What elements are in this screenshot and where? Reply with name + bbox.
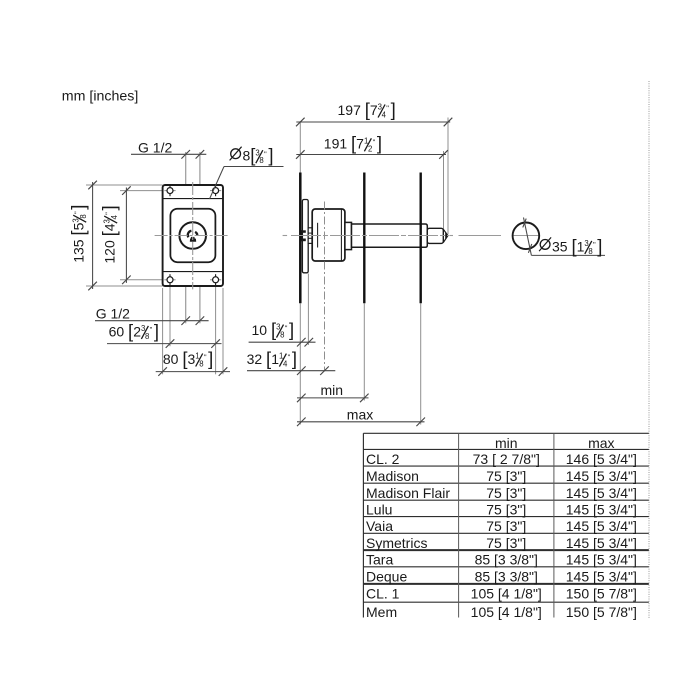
svg-text:197: 197 <box>338 102 362 118</box>
svg-text:85 [3 3/8"]: 85 [3 3/8"] <box>475 569 538 585</box>
svg-text:": " <box>373 137 376 146</box>
svg-text:75 [3"]: 75 [3"] <box>486 468 526 484</box>
svg-text:]: ] <box>391 99 396 120</box>
svg-text:Madison Flair: Madison Flair <box>366 485 450 501</box>
svg-text:145 [5 3/4"]: 145 [5 3/4"] <box>566 518 637 534</box>
svg-text:": " <box>72 211 81 214</box>
svg-text:": " <box>103 212 112 215</box>
svg-text:75 [3"]: 75 [3"] <box>486 501 526 517</box>
svg-text:85 [3 3/8"]: 85 [3 3/8"] <box>475 552 538 568</box>
svg-text:Lulu: Lulu <box>366 501 392 517</box>
svg-text:Tara: Tara <box>366 552 393 568</box>
svg-text:145 [5 3/4"]: 145 [5 3/4"] <box>566 552 637 568</box>
svg-text:145 [5 3/4"]: 145 [5 3/4"] <box>566 569 637 585</box>
svg-text:105 [4 1/8"]: 105 [4 1/8"] <box>471 586 542 602</box>
svg-text:CL. 2: CL. 2 <box>366 451 400 467</box>
svg-text:150 [5 7/8"]: 150 [5 7/8"] <box>566 586 637 602</box>
svg-text:": " <box>593 240 596 249</box>
svg-text:]: ] <box>292 348 297 369</box>
svg-text:191: 191 <box>324 136 348 152</box>
svg-text:Symetrics: Symetrics <box>366 535 427 551</box>
svg-text:35: 35 <box>552 238 568 254</box>
svg-text:Vaia: Vaia <box>366 518 393 534</box>
svg-text:": " <box>386 104 389 113</box>
svg-text:]: ] <box>68 205 89 210</box>
svg-text:150 [5 7/8"]: 150 [5 7/8"] <box>566 604 637 620</box>
svg-text:75 [3"]: 75 [3"] <box>486 485 526 501</box>
svg-text:60: 60 <box>109 323 125 339</box>
svg-text:32: 32 <box>247 351 263 367</box>
svg-text:145 [5 3/4"]: 145 [5 3/4"] <box>566 535 637 551</box>
svg-text:105 [4 1/8"]: 105 [4 1/8"] <box>471 604 542 620</box>
svg-text:]: ] <box>208 348 213 369</box>
svg-text:CL. 1: CL. 1 <box>366 586 400 602</box>
svg-text:Deque: Deque <box>366 569 407 585</box>
svg-text:Mem: Mem <box>366 604 397 620</box>
svg-text:145 [5 3/4"]: 145 [5 3/4"] <box>566 501 637 517</box>
svg-text:146 [5 3/4"]: 146 [5 3/4"] <box>566 451 637 467</box>
svg-text:max: max <box>347 407 373 423</box>
svg-text:]: ] <box>268 145 273 166</box>
svg-text:G 1/2: G 1/2 <box>96 305 130 321</box>
svg-text:min: min <box>321 382 344 398</box>
svg-text:Madison: Madison <box>366 468 419 484</box>
svg-text:75 [3"]: 75 [3"] <box>486 518 526 534</box>
svg-text:": " <box>288 353 291 362</box>
svg-text:min: min <box>495 435 518 451</box>
svg-text:]: ] <box>99 205 120 210</box>
svg-text:": " <box>204 353 207 362</box>
svg-text:]: ] <box>597 235 602 256</box>
svg-text:145 [5 3/4"]: 145 [5 3/4"] <box>566 485 637 501</box>
svg-text:]: ] <box>154 320 159 341</box>
svg-text:120: 120 <box>102 240 118 264</box>
svg-text:max: max <box>588 435 614 451</box>
svg-text:10: 10 <box>252 322 268 338</box>
svg-text:145 [5 3/4"]: 145 [5 3/4"] <box>566 468 637 484</box>
svg-text:]: ] <box>377 133 382 154</box>
svg-text:mm [inches]: mm [inches] <box>62 88 138 104</box>
svg-text:": " <box>285 324 288 333</box>
svg-text:": " <box>150 325 153 334</box>
svg-text:73 [ 2 7/8"]: 73 [ 2 7/8"] <box>473 451 540 467</box>
svg-text:135: 135 <box>71 239 87 263</box>
svg-text:75 [3"]: 75 [3"] <box>486 535 526 551</box>
svg-text:80: 80 <box>163 351 179 367</box>
svg-text:": " <box>264 149 267 158</box>
svg-text:G 1/2: G 1/2 <box>138 139 172 155</box>
svg-text:]: ] <box>289 319 294 340</box>
